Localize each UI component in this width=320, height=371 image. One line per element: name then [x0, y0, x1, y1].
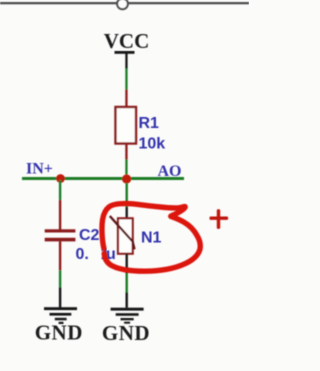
- node junction center: [122, 174, 131, 183]
- annotation plus sign: [210, 209, 229, 229]
- svg-text:GND: GND: [35, 321, 83, 345]
- ground symbol left: [44, 307, 77, 324]
- wire horizontal net: [22, 177, 184, 180]
- toolbar edge line: [0, 2, 249, 4]
- varistor N1 diagonal stroke: [110, 216, 135, 249]
- selection handle circle: [117, 0, 128, 9]
- wire cap top green: [59, 180, 61, 200]
- wire N1 top pin black: [126, 207, 128, 219]
- wire VCC stem black: [125, 51, 127, 69]
- svg-text:R1: R1: [139, 115, 160, 132]
- capacitor C2 plate bottom: [45, 238, 76, 242]
- wire N1 bottom green: [126, 273, 128, 292]
- svg-text:GND: GND: [102, 321, 150, 345]
- svg-text:10k: 10k: [139, 136, 166, 153]
- wire gnd right stem black: [126, 293, 128, 308]
- wire N1 bottom pin black: [126, 254, 128, 273]
- wire cap top pin dark red: [59, 200, 61, 230]
- resistor R1 body: [116, 107, 137, 144]
- svg-text:N1: N1: [141, 229, 162, 246]
- wire to node green: [125, 160, 127, 178]
- capacitor C2 plate top: [45, 229, 76, 232]
- VCC power bar symbol: [115, 51, 135, 54]
- svg-text:VCC: VCC: [104, 29, 150, 53]
- varistor N1 body: [118, 218, 133, 253]
- annotation red circle around N1: [102, 204, 200, 272]
- svg-text:C2: C2: [79, 227, 100, 244]
- node junction left: [56, 174, 65, 183]
- wire gnd left stem black: [59, 287, 61, 307]
- wire cap bottom pin dark red: [59, 241, 61, 270]
- svg-text:IN+: IN+: [26, 161, 53, 178]
- wire cap bottom green: [59, 270, 61, 287]
- ground symbol right: [111, 308, 144, 324]
- wire VCC stem green: [125, 69, 127, 90]
- wire resistor bottom pin dark red: [125, 144, 127, 160]
- wire N1 top green: [126, 183, 128, 207]
- wire resistor top pin dark red: [125, 90, 127, 108]
